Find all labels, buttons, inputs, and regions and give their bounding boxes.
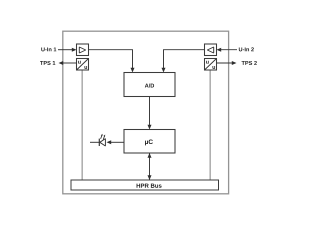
label TPS 2 [242,61,257,65]
wire: U-In 1 input arrow [58,49,73,51]
wire: U-In 2 input arrow [220,49,237,51]
wire: microcontroller to LED [110,141,124,143]
LED D1 (status LED) [90,134,105,146]
wire: left amplifier to A/D [89,50,133,70]
wire: right amplifier to A/D [164,50,205,70]
wire: A/D to microcontroller [149,97,151,127]
amplifier A2 (right input amplifier) [205,44,217,56]
converter U2 (right U/U isolating converter) [205,59,217,71]
wire: right bus drop (U/U converter to HPR Bus) [209,70,211,180]
label TPS 1 [40,61,55,65]
label U-In 2 [239,47,254,51]
A/D converter block [124,73,175,97]
converter U1 (left U/U isolating converter) [77,59,89,71]
enclosure frame [63,31,229,194]
wire: TPS 1 output arrow [62,62,77,64]
wire: left bus drop (U/U converter to HPR Bus) [81,70,83,180]
wire: TPS 2 output arrow [217,62,234,64]
amplifier A1 (left input amplifier) [77,44,89,56]
HPR Bus block [71,180,219,190]
microcontroller U3 (uC) [124,130,175,154]
wire: microcontroller to HPR Bus (bidirectional) [149,153,151,180]
label U-In 1 [41,47,56,51]
